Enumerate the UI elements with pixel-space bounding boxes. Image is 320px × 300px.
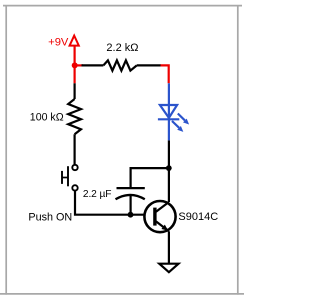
svg-text:2.2 kΩ: 2.2 kΩ [106, 42, 138, 54]
svg-text:+9V: +9V [48, 37, 69, 49]
svg-text:S9014C: S9014C [178, 211, 218, 223]
svg-text:Push ON: Push ON [28, 211, 72, 223]
svg-text:100 kΩ: 100 kΩ [30, 111, 64, 123]
svg-text:2.2 µF: 2.2 µF [83, 189, 112, 200]
